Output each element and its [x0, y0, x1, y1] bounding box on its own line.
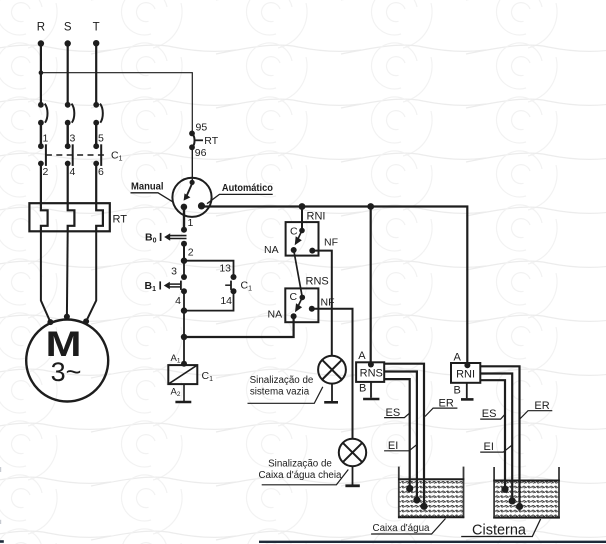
node selector auto contact	[198, 202, 205, 209]
svg-text:T: T	[93, 22, 100, 34]
svg-text:3: 3	[171, 266, 177, 278]
node junction 14	[181, 307, 187, 313]
node junction RNI-C	[299, 203, 306, 210]
wire to coil	[183, 337, 185, 364]
svg-text:Sinalização de: Sinalização de	[250, 375, 314, 386]
node 2	[181, 241, 187, 247]
contactor C1 pole 5-6	[93, 143, 101, 166]
page corner mark	[0, 540, 4, 543]
wire RNI NF to lamp1	[312, 251, 332, 356]
wire T switch to contact 5	[95, 123, 97, 147]
node electrode EI cisterna	[509, 497, 516, 504]
leader EI cisterna	[480, 446, 511, 453]
ground RNI	[461, 398, 474, 401]
wire phase R vertical top	[40, 44, 42, 105]
node RNS C	[300, 295, 306, 301]
node RNS NA	[291, 313, 297, 319]
leader caixa cheia	[262, 470, 349, 485]
svg-text:sistema vazia: sistema vazia	[250, 387, 310, 398]
svg-text:A: A	[454, 352, 462, 364]
svg-text:5: 5	[98, 133, 104, 145]
svg-text:13: 13	[219, 263, 231, 275]
svg-text:3~: 3~	[51, 357, 82, 387]
RT heater element phase T	[96, 203, 103, 231]
wire RNI ES electrode	[480, 380, 505, 489]
node 3	[181, 274, 187, 280]
node RNI NF	[309, 248, 315, 254]
node RNI A	[464, 362, 470, 368]
svg-text:2: 2	[43, 166, 49, 178]
svg-text:RT: RT	[113, 214, 128, 226]
svg-text:NA: NA	[268, 309, 283, 321]
svg-text:6: 6	[98, 166, 104, 178]
svg-text:RNS: RNS	[360, 368, 383, 380]
svg-text:RT: RT	[204, 135, 218, 147]
wire down to RNS relay A	[370, 207, 372, 364]
relay contact box RNS	[285, 288, 318, 322]
wire RNI NA to RNS C	[294, 250, 303, 297]
wire main control line	[202, 207, 468, 364]
node electrode ER cisterna	[516, 503, 523, 510]
leader ER caixa	[425, 408, 457, 416]
wire RNI EI electrode	[480, 374, 512, 501]
disconnect switch Q R-phase	[38, 102, 48, 126]
leader sistema vazia	[248, 387, 323, 404]
lamp H1 sistema vazia	[318, 356, 346, 384]
ground lamp1	[324, 401, 338, 404]
svg-text:4: 4	[175, 295, 181, 307]
wire selector manual down to 1	[183, 207, 185, 230]
svg-text:2: 2	[188, 247, 194, 259]
svg-text:Caixa d'água cheia: Caixa d'água cheia	[258, 470, 342, 481]
edge mark 2	[0, 520, 1, 524]
wire contact 2 to RT	[40, 164, 42, 204]
node electrode ES cisterna	[501, 486, 508, 493]
node RNS A	[368, 362, 374, 368]
selector switch Manual/Automatico circle	[172, 178, 211, 217]
leader ER cisterna	[520, 411, 553, 419]
svg-text:RNI: RNI	[456, 369, 475, 381]
svg-text:96: 96	[195, 147, 207, 159]
svg-text:RNS: RNS	[306, 276, 329, 288]
RNS wiper arrow	[295, 299, 302, 312]
wire junction to 3	[183, 261, 185, 277]
node electrode ER caixa	[420, 503, 427, 510]
ground lamp2	[345, 484, 359, 487]
wire RNS B ground	[370, 382, 372, 398]
svg-text:R: R	[37, 22, 45, 34]
node 14	[231, 288, 237, 294]
svg-text:NF: NF	[321, 297, 335, 309]
svg-text:Caixa d'água: Caixa d'água	[373, 523, 430, 534]
svg-text:ES: ES	[482, 408, 497, 420]
wire 4 down	[183, 291, 185, 337]
svg-text:A: A	[358, 350, 366, 362]
selector wiper arrow	[184, 184, 193, 201]
leader EI caixa	[384, 445, 416, 451]
node junction RNS-A	[367, 203, 374, 210]
node selector common	[190, 180, 195, 185]
wire S switch to contact 3	[66, 123, 68, 147]
svg-text:Automático: Automático	[222, 182, 273, 194]
wire RNS NF to lamp2	[312, 309, 353, 439]
wire RNI B ground	[466, 383, 468, 398]
relay contact box RNI	[286, 222, 319, 256]
svg-text:1: 1	[188, 217, 194, 229]
wire RT to motor mid	[66, 231, 69, 316]
wire dashed linkage C1	[46, 154, 108, 156]
svg-text:95: 95	[196, 122, 208, 134]
svg-text:C: C	[290, 291, 298, 303]
wire RNS ER electrode	[384, 364, 424, 507]
svg-text:RNI: RNI	[307, 211, 326, 223]
RT heater element phase R	[41, 203, 48, 231]
wire lamp1 to ground	[331, 384, 333, 402]
pushbutton B1	[145, 280, 181, 293]
leader ES caixa	[384, 412, 410, 417]
coil C1	[168, 365, 197, 384]
node junction 13-branch	[181, 258, 187, 264]
leader caixa	[371, 519, 445, 535]
node R terminal	[38, 40, 44, 46]
ground coil	[175, 401, 191, 404]
wire R tap to control	[41, 73, 192, 133]
wire 14 to junction	[184, 291, 234, 310]
wire phase S vertical top	[67, 44, 69, 105]
wire lamp2 to ground	[352, 466, 354, 484]
svg-text:S: S	[64, 22, 72, 34]
wire coil to ground	[183, 384, 185, 401]
contactor C1 pole 3-4	[65, 143, 73, 166]
node S terminal	[65, 40, 71, 46]
wire long to RNS NA	[184, 316, 294, 337]
leader Automatico	[207, 194, 273, 203]
wire phase T vertical top	[95, 43, 97, 104]
wire RNS ES electrode	[384, 379, 410, 488]
relay RNS box	[356, 362, 384, 382]
leader cisterna	[461, 519, 540, 537]
node RNI NA	[291, 247, 297, 253]
overload relay RT box	[29, 203, 109, 231]
wire contact 6 to RT	[95, 164, 97, 204]
node 4	[181, 288, 187, 294]
page bottom rule	[259, 541, 606, 543]
svg-text:EI: EI	[484, 441, 494, 453]
relay RNI box	[451, 363, 480, 383]
svg-text:B: B	[359, 383, 366, 395]
wire contact 4 to RT	[67, 164, 69, 204]
node selector manual contact	[181, 204, 188, 211]
node motor terminal left	[47, 319, 53, 325]
svg-text:C: C	[290, 226, 298, 238]
wire RNS EI electrode	[384, 372, 417, 501]
tank cisterna	[493, 467, 560, 519]
wire RT to motor left	[41, 231, 51, 322]
node RNI C	[299, 228, 305, 234]
disconnect switch Q T-phase	[93, 102, 103, 126]
node motor terminal mid	[64, 314, 70, 320]
node 1	[181, 227, 187, 233]
contact RT 95-96	[189, 131, 203, 151]
svg-text:1: 1	[43, 133, 49, 145]
ground RNS	[363, 398, 379, 401]
svg-text:B: B	[454, 385, 461, 397]
pushbutton B0	[145, 232, 187, 245]
tank caixa dagua	[398, 467, 464, 518]
leader ES cisterna	[480, 414, 505, 419]
node motor terminal right	[83, 318, 89, 324]
RNI wiper arrow	[295, 233, 302, 246]
svg-text:3: 3	[70, 133, 76, 145]
svg-text:EI: EI	[388, 440, 398, 452]
wire RNI ER electrode	[480, 366, 519, 506]
wire R switch to contact 1	[40, 123, 42, 147]
contact C1 aux 13-14	[225, 281, 231, 290]
lamp H2 caixa cheia	[339, 439, 366, 466]
node junction seal	[181, 334, 187, 340]
svg-text:Sinalização de: Sinalização de	[268, 458, 332, 469]
node electrode EI caixa	[413, 496, 420, 503]
disconnect switch Q S-phase	[65, 102, 75, 126]
node A1	[181, 361, 187, 367]
node 13	[231, 274, 237, 280]
node RNS NF	[309, 306, 315, 312]
node electrode ES caixa	[406, 485, 413, 492]
svg-text:4: 4	[70, 166, 76, 178]
leader Manual	[131, 193, 174, 203]
wire down to RNI C	[301, 207, 303, 231]
svg-text:Manual: Manual	[131, 181, 164, 193]
node T terminal	[93, 40, 99, 46]
motor M1 circle	[26, 320, 108, 402]
svg-text:14: 14	[220, 295, 232, 307]
contactor C1 pole 1-2	[38, 143, 46, 166]
wire 96 to selector	[191, 147, 193, 182]
node R tap junction	[39, 70, 44, 75]
RT heater element phase S	[68, 203, 75, 231]
wire branch to 13	[184, 261, 234, 277]
wire 2 to junction	[183, 244, 185, 261]
wire RT to motor right	[86, 231, 96, 321]
svg-text:NA: NA	[264, 244, 279, 256]
edge mark 1	[0, 467, 1, 472]
svg-text:NF: NF	[324, 237, 338, 249]
